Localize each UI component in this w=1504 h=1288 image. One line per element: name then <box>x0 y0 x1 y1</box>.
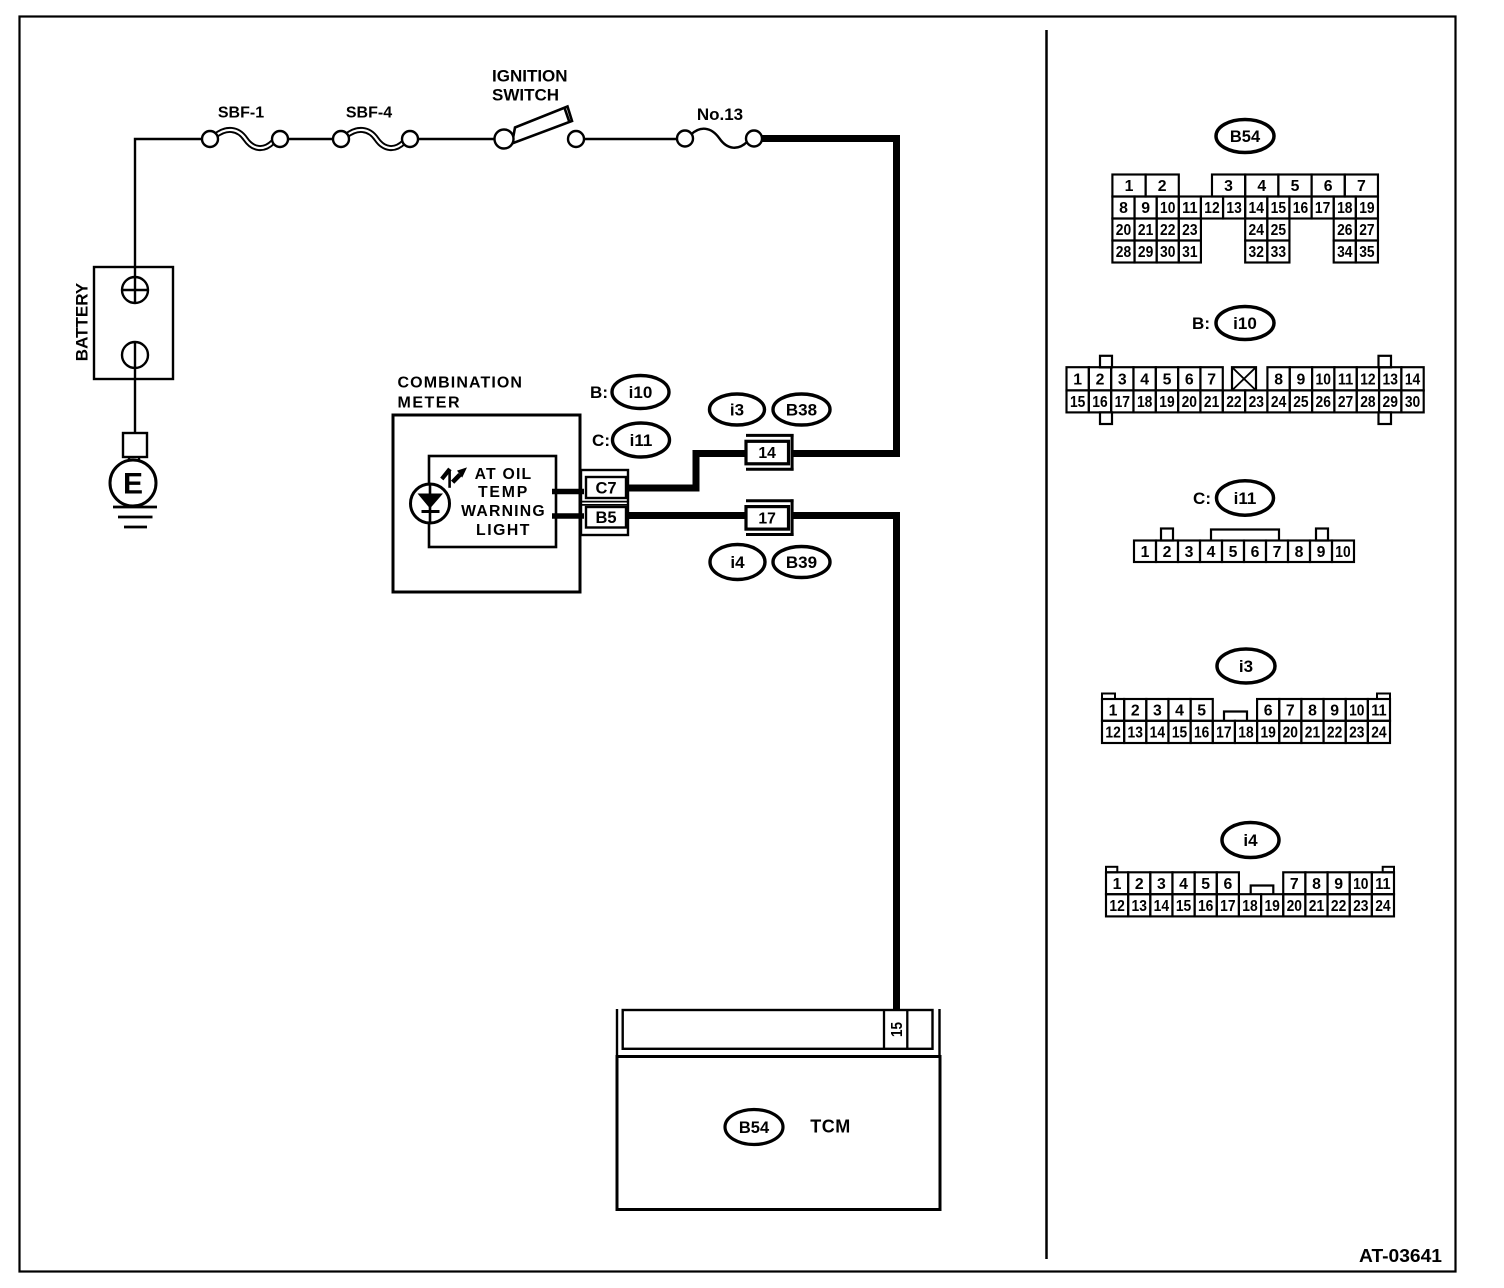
svg-text:11: 11 <box>1338 371 1354 388</box>
svg-text:4: 4 <box>1140 371 1149 388</box>
svg-text:3: 3 <box>1185 544 1194 561</box>
svg-text:IGNITION: IGNITION <box>492 67 568 86</box>
svg-text:C7: C7 <box>595 480 616 498</box>
svg-text:22: 22 <box>1327 725 1343 742</box>
svg-text:3: 3 <box>1157 876 1166 893</box>
svg-text:6: 6 <box>1185 371 1194 388</box>
svg-text:B54: B54 <box>739 1119 770 1137</box>
svg-text:6: 6 <box>1264 703 1273 720</box>
svg-text:B39: B39 <box>786 553 817 572</box>
svg-text:7: 7 <box>1207 371 1216 388</box>
svg-text:14: 14 <box>1249 200 1265 217</box>
svg-text:E: E <box>123 468 143 501</box>
svg-text:11: 11 <box>1375 876 1391 893</box>
svg-text:23: 23 <box>1249 394 1265 411</box>
svg-text:i11: i11 <box>1234 489 1257 508</box>
svg-text:4: 4 <box>1175 703 1184 720</box>
svg-text:18: 18 <box>1242 898 1258 915</box>
svg-text:30: 30 <box>1405 394 1421 411</box>
svg-text:15: 15 <box>1070 394 1086 411</box>
svg-text:9: 9 <box>1330 703 1339 720</box>
svg-text:3: 3 <box>1224 178 1233 195</box>
svg-text:28: 28 <box>1116 244 1132 261</box>
svg-text:B:: B: <box>590 383 608 402</box>
svg-text:C:: C: <box>1193 489 1211 508</box>
svg-text:C:: C: <box>592 431 610 450</box>
svg-text:8: 8 <box>1295 544 1304 561</box>
svg-text:5: 5 <box>1197 703 1206 720</box>
svg-text:i10: i10 <box>629 383 653 402</box>
svg-text:17: 17 <box>1220 898 1236 915</box>
svg-text:31: 31 <box>1182 244 1198 261</box>
svg-text:3: 3 <box>1153 703 1162 720</box>
svg-text:15: 15 <box>889 1022 906 1037</box>
svg-text:2: 2 <box>1096 371 1105 388</box>
svg-text:i4: i4 <box>730 553 745 572</box>
svg-text:25: 25 <box>1271 222 1287 239</box>
svg-text:B38: B38 <box>786 401 817 420</box>
svg-text:11: 11 <box>1182 200 1198 217</box>
svg-text:AT OIL: AT OIL <box>475 466 533 483</box>
svg-text:17: 17 <box>1115 394 1131 411</box>
svg-text:15: 15 <box>1271 200 1287 217</box>
svg-text:19: 19 <box>1260 725 1276 742</box>
svg-text:10: 10 <box>1335 544 1351 561</box>
svg-text:16: 16 <box>1293 200 1309 217</box>
svg-text:23: 23 <box>1349 725 1365 742</box>
svg-text:7: 7 <box>1290 876 1299 893</box>
svg-text:13: 13 <box>1383 371 1399 388</box>
svg-text:32: 32 <box>1249 244 1265 261</box>
svg-text:BATTERY: BATTERY <box>73 282 92 361</box>
svg-text:19: 19 <box>1159 394 1175 411</box>
svg-text:10: 10 <box>1160 200 1176 217</box>
svg-text:7: 7 <box>1357 178 1366 195</box>
svg-text:9: 9 <box>1141 200 1150 217</box>
svg-text:SBF-4: SBF-4 <box>346 105 392 122</box>
svg-text:9: 9 <box>1297 371 1306 388</box>
svg-text:10: 10 <box>1316 371 1332 388</box>
svg-text:5: 5 <box>1229 544 1238 561</box>
svg-text:20: 20 <box>1287 898 1303 915</box>
svg-text:i3: i3 <box>730 401 744 420</box>
svg-text:6: 6 <box>1223 876 1232 893</box>
svg-text:16: 16 <box>1194 725 1210 742</box>
svg-text:COMBINATION: COMBINATION <box>398 375 524 392</box>
svg-text:8: 8 <box>1119 200 1128 217</box>
svg-text:20: 20 <box>1116 222 1132 239</box>
svg-text:29: 29 <box>1383 394 1399 411</box>
svg-text:24: 24 <box>1249 222 1265 239</box>
svg-text:18: 18 <box>1137 394 1153 411</box>
svg-text:i11: i11 <box>630 431 653 450</box>
svg-text:12: 12 <box>1109 898 1125 915</box>
svg-text:SBF-1: SBF-1 <box>218 105 264 122</box>
svg-text:AT-03641: AT-03641 <box>1359 1245 1442 1266</box>
svg-text:B54: B54 <box>1230 128 1261 146</box>
svg-text:25: 25 <box>1293 394 1309 411</box>
svg-text:16: 16 <box>1198 898 1214 915</box>
svg-text:33: 33 <box>1271 244 1287 261</box>
svg-text:9: 9 <box>1317 544 1326 561</box>
svg-text:i10: i10 <box>1233 314 1257 333</box>
svg-text:19: 19 <box>1359 200 1375 217</box>
svg-text:15: 15 <box>1176 898 1192 915</box>
svg-text:METER: METER <box>398 395 462 412</box>
svg-text:18: 18 <box>1238 725 1254 742</box>
svg-text:26: 26 <box>1337 222 1353 239</box>
svg-text:18: 18 <box>1337 200 1353 217</box>
svg-text:2: 2 <box>1163 544 1172 561</box>
svg-text:13: 13 <box>1132 898 1148 915</box>
svg-text:22: 22 <box>1226 394 1242 411</box>
svg-text:12: 12 <box>1360 371 1376 388</box>
svg-text:24: 24 <box>1375 898 1391 915</box>
svg-text:SWITCH: SWITCH <box>492 86 559 105</box>
svg-text:10: 10 <box>1353 876 1369 893</box>
svg-text:1: 1 <box>1109 703 1118 720</box>
svg-text:B5: B5 <box>595 509 616 527</box>
svg-text:3: 3 <box>1118 371 1127 388</box>
svg-text:8: 8 <box>1308 703 1317 720</box>
svg-text:21: 21 <box>1138 222 1154 239</box>
svg-text:13: 13 <box>1128 725 1144 742</box>
svg-text:2: 2 <box>1131 703 1140 720</box>
svg-text:35: 35 <box>1359 244 1375 261</box>
svg-text:17: 17 <box>1216 725 1232 742</box>
svg-text:6: 6 <box>1324 178 1333 195</box>
svg-text:TCM: TCM <box>810 1117 851 1137</box>
svg-text:16: 16 <box>1092 394 1108 411</box>
svg-text:1: 1 <box>1125 178 1134 195</box>
svg-text:4: 4 <box>1257 178 1266 195</box>
svg-text:21: 21 <box>1309 898 1325 915</box>
svg-text:21: 21 <box>1305 725 1321 742</box>
svg-text:29: 29 <box>1138 244 1154 261</box>
svg-text:WARNING: WARNING <box>461 503 546 520</box>
svg-text:B:: B: <box>1192 314 1210 333</box>
svg-text:2: 2 <box>1158 178 1167 195</box>
svg-text:5: 5 <box>1291 178 1300 195</box>
svg-text:20: 20 <box>1283 725 1299 742</box>
svg-text:8: 8 <box>1274 371 1283 388</box>
svg-text:27: 27 <box>1338 394 1354 411</box>
svg-text:5: 5 <box>1201 876 1210 893</box>
svg-text:i3: i3 <box>1239 657 1253 676</box>
svg-text:4: 4 <box>1179 876 1188 893</box>
svg-text:14: 14 <box>1154 898 1170 915</box>
svg-text:24: 24 <box>1371 725 1387 742</box>
svg-text:22: 22 <box>1160 222 1176 239</box>
svg-text:14: 14 <box>1150 725 1166 742</box>
svg-text:15: 15 <box>1172 725 1188 742</box>
svg-text:22: 22 <box>1331 898 1347 915</box>
svg-text:19: 19 <box>1264 898 1280 915</box>
svg-text:TEMP: TEMP <box>478 484 529 501</box>
svg-text:2: 2 <box>1135 876 1144 893</box>
svg-text:27: 27 <box>1359 222 1375 239</box>
svg-text:9: 9 <box>1334 876 1343 893</box>
svg-text:1: 1 <box>1113 876 1122 893</box>
svg-text:5: 5 <box>1163 371 1172 388</box>
svg-text:17: 17 <box>1315 200 1331 217</box>
svg-text:8: 8 <box>1312 876 1321 893</box>
svg-text:17: 17 <box>758 510 776 527</box>
svg-text:23: 23 <box>1182 222 1198 239</box>
svg-text:7: 7 <box>1286 703 1295 720</box>
svg-text:1: 1 <box>1141 544 1150 561</box>
svg-text:4: 4 <box>1207 544 1216 561</box>
svg-text:1: 1 <box>1073 371 1082 388</box>
svg-text:12: 12 <box>1105 725 1121 742</box>
svg-text:10: 10 <box>1349 703 1365 720</box>
svg-text:23: 23 <box>1353 898 1369 915</box>
svg-text:No.13: No.13 <box>697 105 743 124</box>
svg-text:7: 7 <box>1273 544 1282 561</box>
svg-text:26: 26 <box>1316 394 1332 411</box>
svg-text:12: 12 <box>1204 200 1220 217</box>
svg-text:24: 24 <box>1271 394 1287 411</box>
svg-text:30: 30 <box>1160 244 1176 261</box>
svg-text:34: 34 <box>1337 244 1353 261</box>
svg-text:14: 14 <box>1405 371 1421 388</box>
svg-text:28: 28 <box>1360 394 1376 411</box>
svg-text:i4: i4 <box>1243 831 1258 850</box>
svg-text:21: 21 <box>1204 394 1220 411</box>
svg-text:14: 14 <box>758 445 776 462</box>
svg-text:20: 20 <box>1182 394 1198 411</box>
svg-text:LIGHT: LIGHT <box>476 522 531 539</box>
svg-text:13: 13 <box>1226 200 1242 217</box>
svg-text:11: 11 <box>1371 703 1387 720</box>
svg-text:6: 6 <box>1251 544 1260 561</box>
